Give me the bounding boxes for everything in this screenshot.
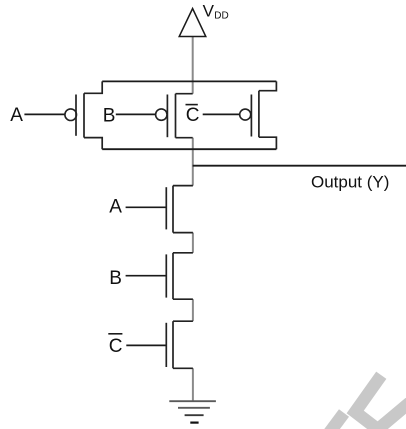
transistor Q5 NMOS B [166, 253, 193, 299]
wire input C-bar [203, 113, 241, 115]
wire Q6 source to ground (grey) [192, 368, 194, 400]
wire VDD vertical (grey) [192, 37, 194, 94]
wire input B nmos [126, 275, 167, 277]
svg-text:DD: DD [214, 11, 228, 22]
svg-text:V: V [203, 2, 215, 21]
svg-text:C: C [109, 336, 123, 357]
svg-text:B: B [109, 268, 122, 289]
wire input A [24, 113, 65, 115]
wire pmos top rail [102, 80, 276, 82]
transistor Q6 NMOS C-bar [166, 321, 193, 368]
wire output line [193, 165, 406, 167]
wire Q5 source to Q6 drain (grey) [192, 299, 194, 321]
power symbol VDD triangle [179, 9, 206, 37]
watermark grey chevron [328, 375, 406, 429]
wire input C-bar nmos [126, 344, 166, 346]
svg-text:A: A [10, 105, 23, 126]
transistor Q3 PMOS C-bar [240, 81, 277, 149]
transistor Q4 NMOS A [166, 186, 193, 233]
label C-bar (pmos input) [186, 105, 200, 127]
ground [169, 401, 216, 422]
wire pmos bottom rail [102, 148, 276, 150]
label VDD [203, 2, 229, 22]
svg-text:Output (Y): Output (Y) [311, 172, 389, 191]
wire Q4 source to Q5 drain (grey) [192, 233, 194, 253]
wire input B [116, 113, 157, 115]
label C-bar (nmos input) [108, 334, 122, 357]
transistor Q2 PMOS B [156, 94, 193, 138]
wire input A nmos [126, 206, 167, 208]
transistor Q1 PMOS A [65, 81, 102, 149]
svg-text:B: B [103, 105, 116, 126]
wire output spine vertical (grey) [192, 138, 194, 186]
svg-text:A: A [109, 197, 122, 218]
svg-text:C: C [186, 105, 200, 126]
